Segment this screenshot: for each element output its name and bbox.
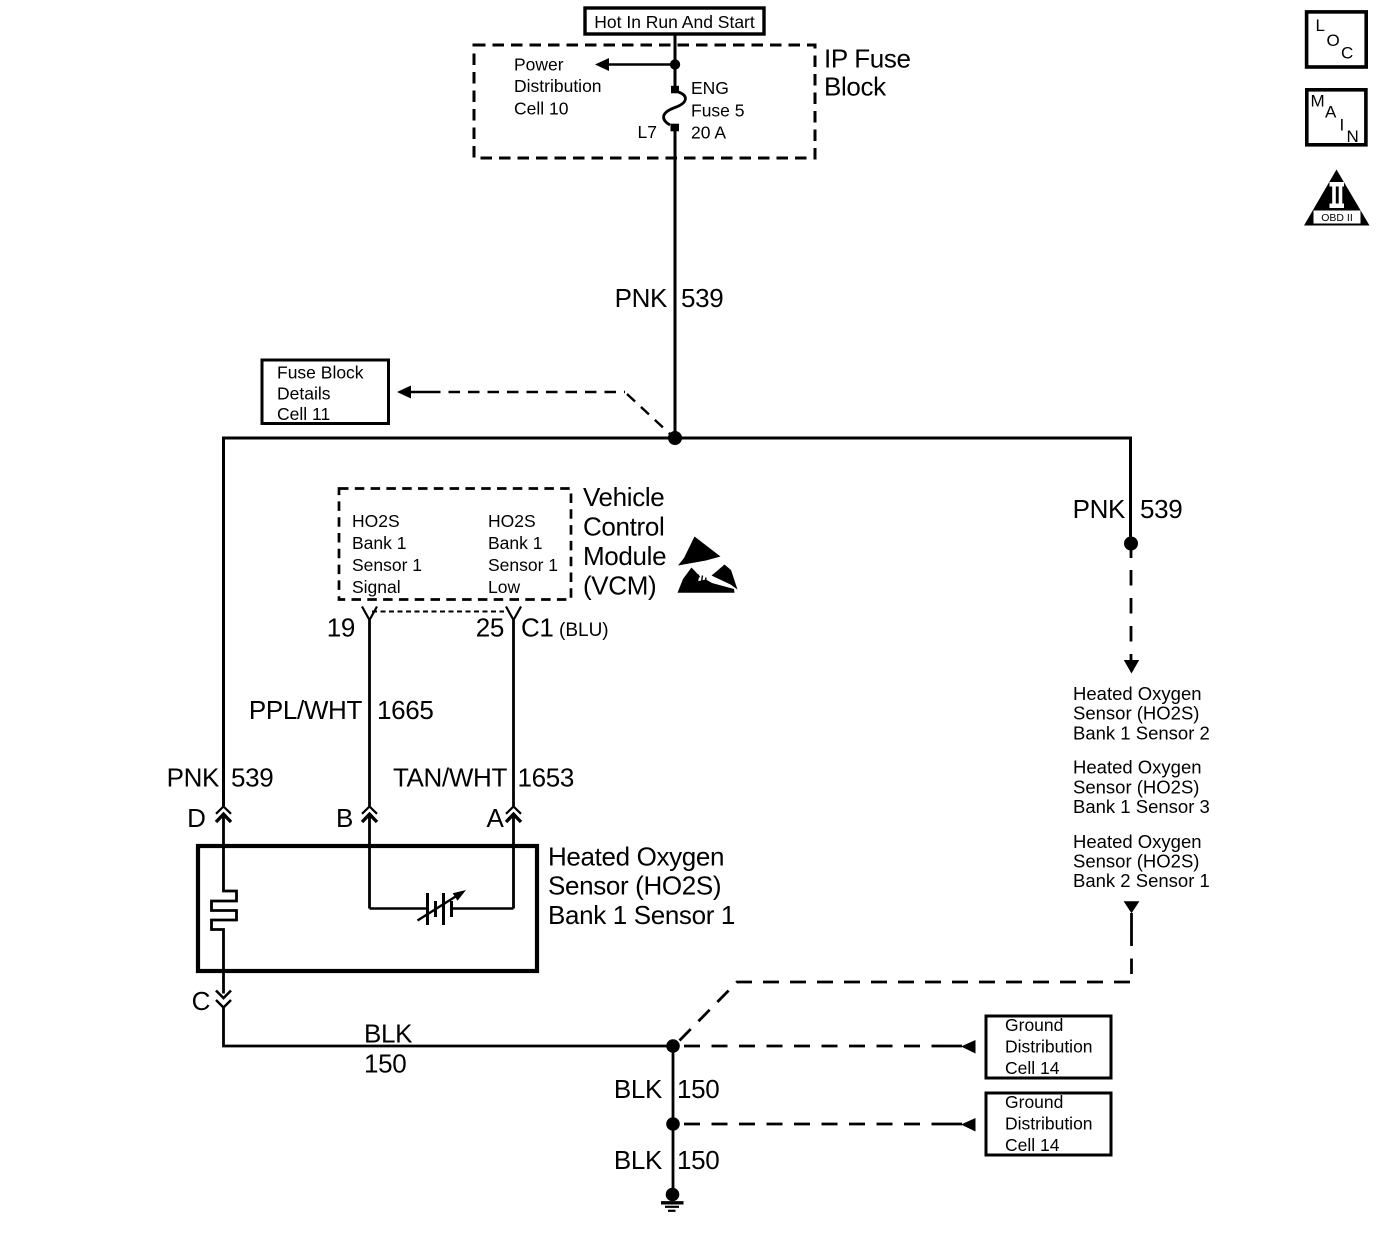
svg-text:PPL/WHT: PPL/WHT bbox=[249, 695, 363, 725]
svg-text:25: 25 bbox=[476, 613, 504, 643]
svg-text:Module: Module bbox=[583, 541, 666, 571]
svg-text:Heated Oxygen: Heated Oxygen bbox=[1073, 683, 1202, 704]
svg-text:Bank 1 Sensor 1: Bank 1 Sensor 1 bbox=[548, 900, 735, 930]
svg-text:1653: 1653 bbox=[518, 763, 574, 793]
svg-text:N: N bbox=[1347, 127, 1359, 146]
svg-text:(VCM): (VCM) bbox=[583, 571, 656, 601]
svg-text:Hot In Run And Start: Hot In Run And Start bbox=[594, 12, 755, 32]
svg-text:Signal: Signal bbox=[352, 577, 401, 597]
svg-text:Fuse Block: Fuse Block bbox=[277, 362, 364, 382]
svg-text:Vehicle: Vehicle bbox=[583, 482, 664, 512]
svg-text:Distribution: Distribution bbox=[1005, 1037, 1093, 1057]
svg-text:Fuse 5: Fuse 5 bbox=[691, 101, 745, 121]
svg-text:1665: 1665 bbox=[377, 695, 433, 725]
svg-text:B: B bbox=[336, 803, 353, 833]
svg-text:20 A: 20 A bbox=[691, 123, 726, 143]
svg-text:Ground: Ground bbox=[1005, 1015, 1063, 1035]
svg-text:Cell 11: Cell 11 bbox=[277, 404, 330, 424]
svg-text:Distribution: Distribution bbox=[1005, 1114, 1093, 1134]
svg-text:Sensor (HO2S): Sensor (HO2S) bbox=[548, 871, 721, 901]
svg-text:Sensor 1: Sensor 1 bbox=[352, 555, 422, 575]
svg-text:Heated Oxygen: Heated Oxygen bbox=[548, 841, 724, 871]
svg-text:IP Fuse: IP Fuse bbox=[824, 44, 911, 74]
svg-text:D: D bbox=[187, 803, 205, 833]
svg-text:BLK: BLK bbox=[614, 1074, 663, 1104]
svg-text:ENG: ENG bbox=[691, 78, 729, 98]
svg-text:Control: Control bbox=[583, 512, 664, 542]
svg-text:PNK: PNK bbox=[615, 283, 668, 313]
svg-text:19: 19 bbox=[327, 613, 355, 643]
svg-text:O: O bbox=[1327, 31, 1340, 50]
svg-text:C: C bbox=[192, 986, 210, 1016]
svg-text:Sensor (HO2S): Sensor (HO2S) bbox=[1073, 703, 1199, 724]
svg-text:Sensor (HO2S): Sensor (HO2S) bbox=[1073, 851, 1199, 872]
svg-text:Block: Block bbox=[824, 72, 887, 102]
svg-text:Distribution: Distribution bbox=[514, 76, 602, 96]
svg-text:HO2S: HO2S bbox=[352, 511, 400, 531]
svg-text:C: C bbox=[1341, 44, 1353, 63]
svg-text:150: 150 bbox=[364, 1049, 406, 1079]
svg-text:(BLU): (BLU) bbox=[559, 620, 609, 641]
svg-text:539: 539 bbox=[681, 283, 723, 313]
svg-text:150: 150 bbox=[677, 1074, 719, 1104]
svg-text:L: L bbox=[1316, 16, 1325, 35]
svg-text:TAN/WHT: TAN/WHT bbox=[393, 763, 508, 793]
svg-text:Bank 1 Sensor 2: Bank 1 Sensor 2 bbox=[1073, 722, 1210, 743]
svg-text:L7: L7 bbox=[638, 122, 657, 142]
svg-text:Bank 2 Sensor 1: Bank 2 Sensor 1 bbox=[1073, 870, 1210, 891]
svg-text:OBD II: OBD II bbox=[1321, 212, 1353, 224]
svg-text:Cell 14: Cell 14 bbox=[1005, 1135, 1060, 1155]
svg-text:Cell 14: Cell 14 bbox=[1005, 1058, 1060, 1078]
svg-text:I: I bbox=[1340, 116, 1345, 135]
svg-text:Heated Oxygen: Heated Oxygen bbox=[1073, 831, 1202, 852]
svg-text:Sensor (HO2S): Sensor (HO2S) bbox=[1073, 776, 1199, 797]
svg-text:A: A bbox=[1325, 102, 1337, 121]
svg-text:M: M bbox=[1311, 91, 1325, 110]
svg-text:Bank 1: Bank 1 bbox=[352, 533, 406, 553]
svg-text:Heated Oxygen: Heated Oxygen bbox=[1073, 757, 1202, 778]
svg-text:A: A bbox=[487, 803, 505, 833]
svg-text:HO2S: HO2S bbox=[488, 511, 536, 531]
svg-text:Bank 1: Bank 1 bbox=[488, 533, 542, 553]
svg-text:Details: Details bbox=[277, 383, 331, 403]
svg-text:Low: Low bbox=[488, 577, 520, 597]
svg-text:Cell 10: Cell 10 bbox=[514, 98, 569, 118]
svg-text:BLK: BLK bbox=[364, 1019, 413, 1049]
svg-text:PNK: PNK bbox=[167, 763, 220, 793]
svg-text:Bank 1 Sensor 3: Bank 1 Sensor 3 bbox=[1073, 796, 1210, 817]
svg-text:C1: C1 bbox=[521, 613, 554, 643]
svg-text:PNK: PNK bbox=[1073, 494, 1126, 524]
svg-text:Sensor 1: Sensor 1 bbox=[488, 555, 558, 575]
svg-text:539: 539 bbox=[1140, 494, 1182, 524]
svg-text:539: 539 bbox=[231, 763, 273, 793]
svg-text:Power: Power bbox=[514, 54, 564, 74]
svg-text:Ground: Ground bbox=[1005, 1092, 1063, 1112]
svg-text:150: 150 bbox=[677, 1145, 719, 1175]
svg-text:BLK: BLK bbox=[614, 1145, 663, 1175]
